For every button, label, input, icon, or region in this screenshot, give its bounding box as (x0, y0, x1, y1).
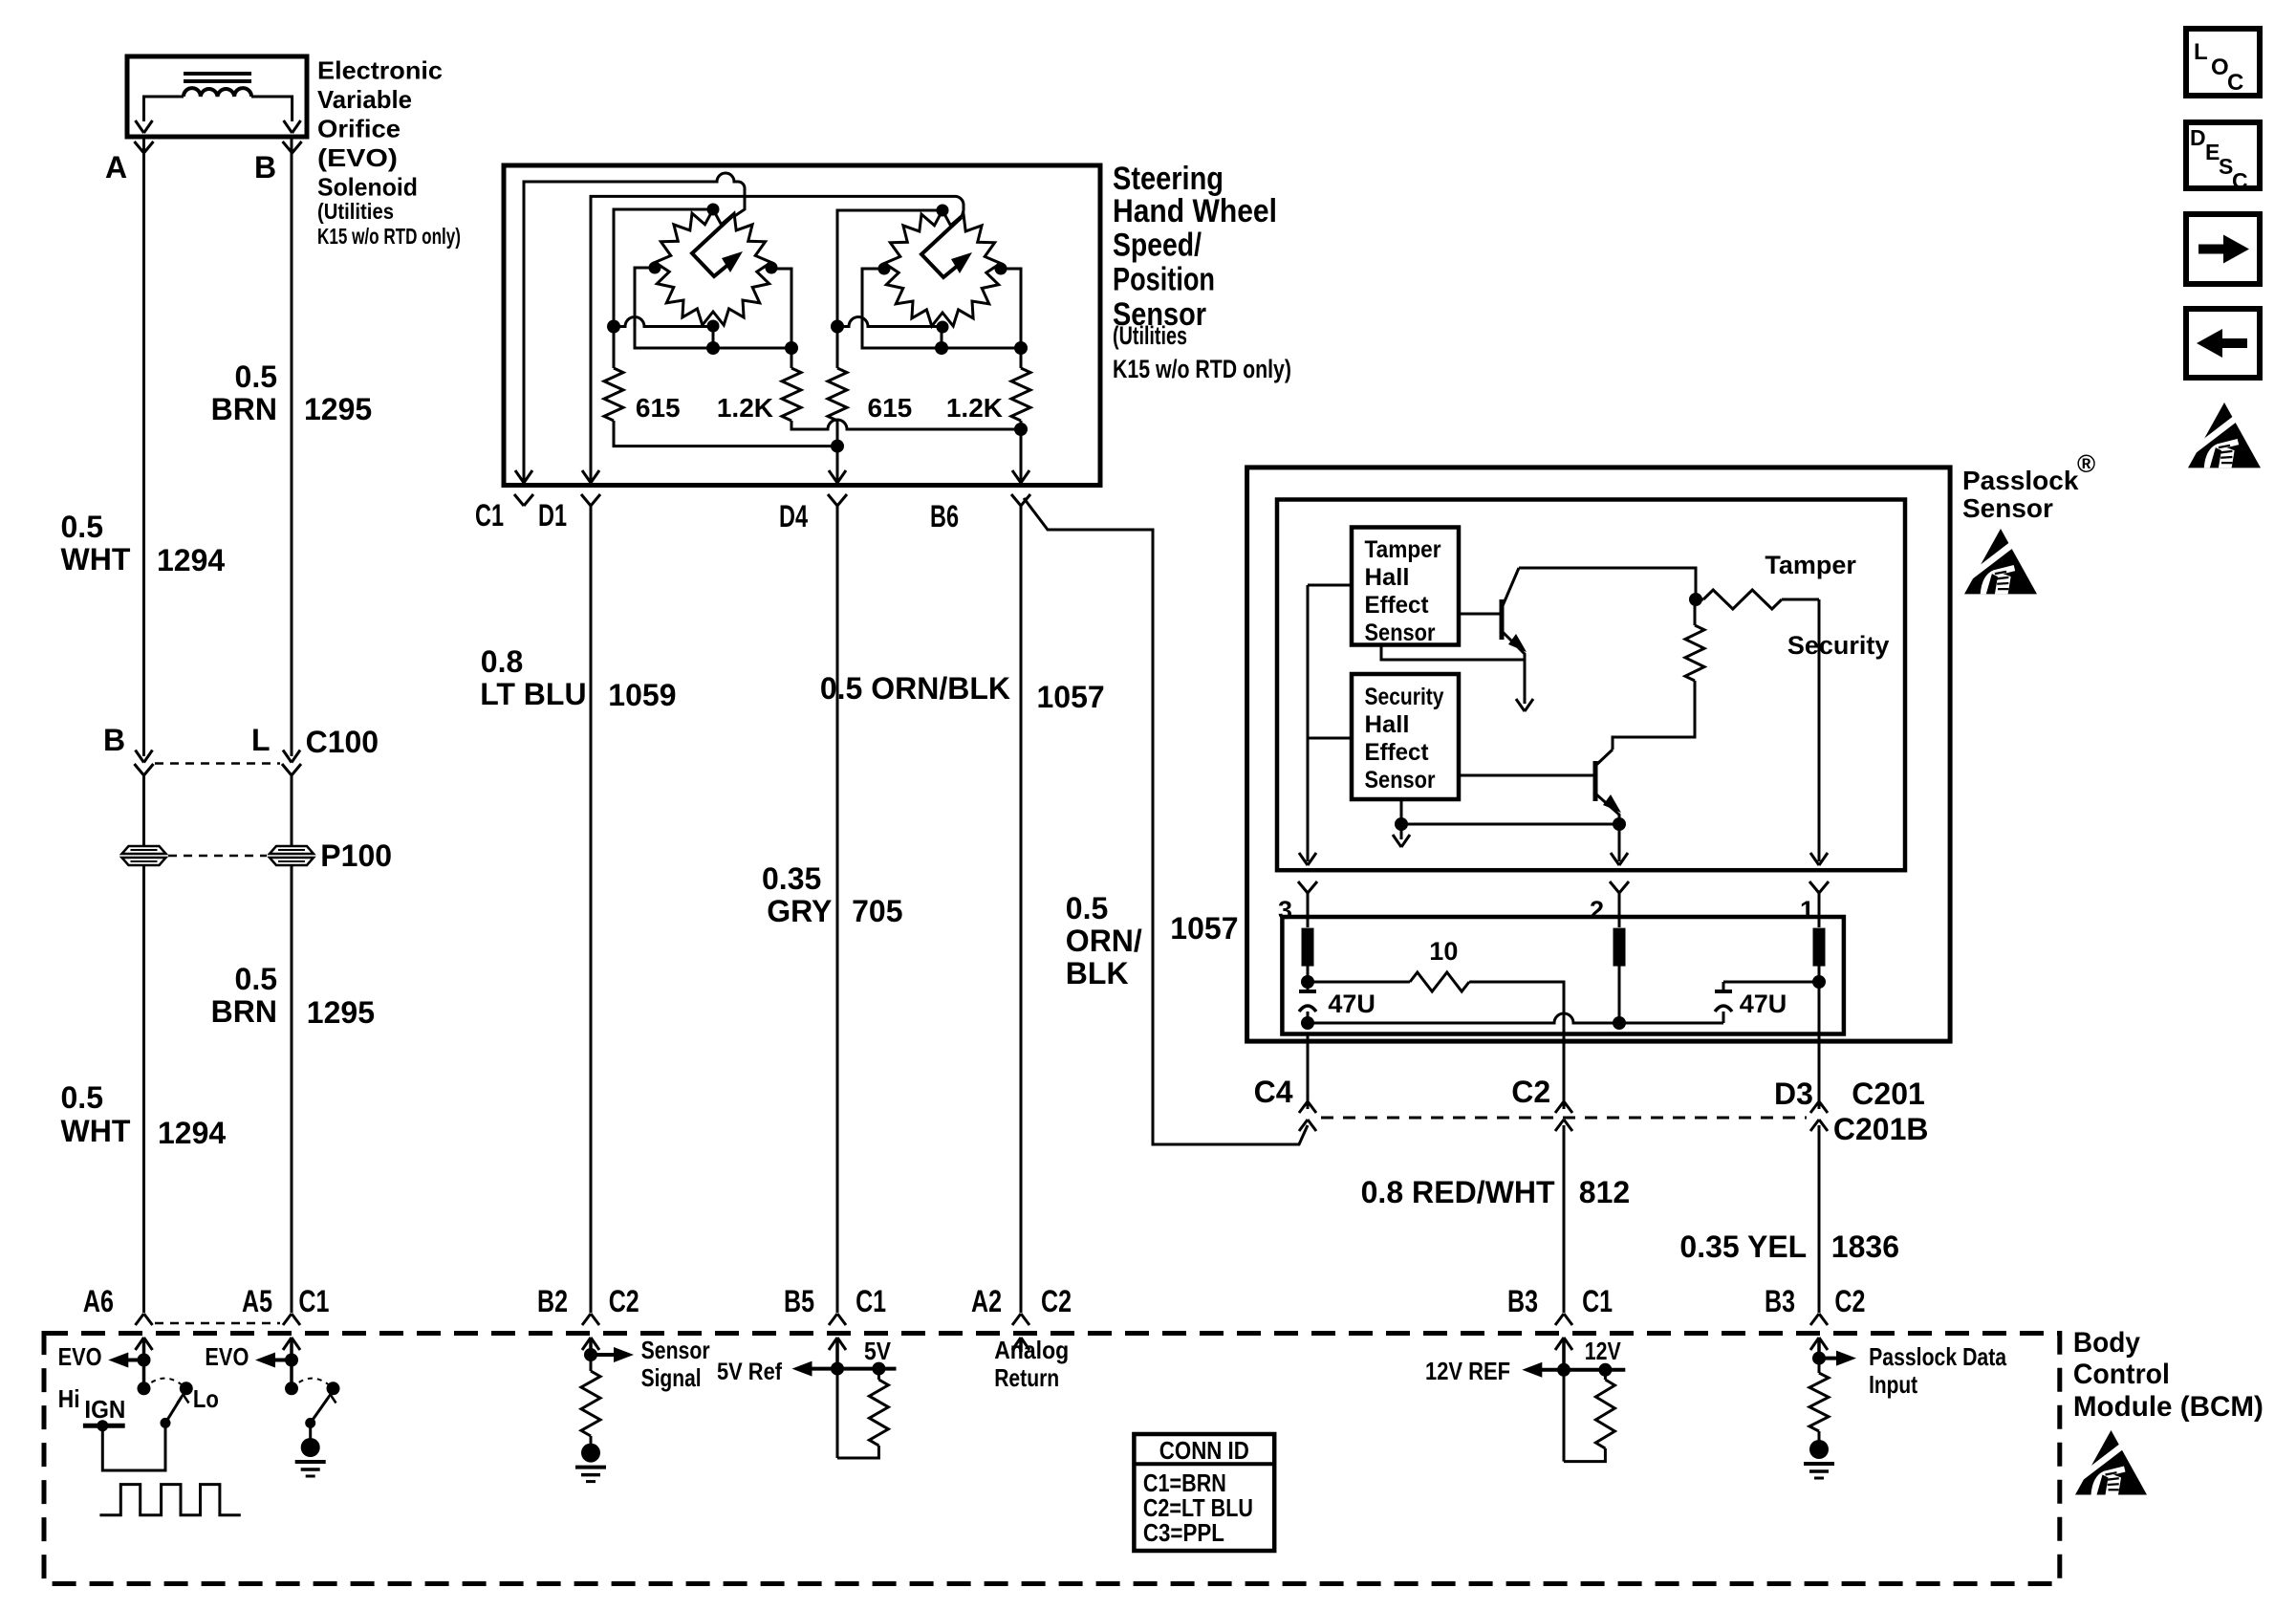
wire 1294 WHT pin A to C100 (142, 137, 145, 756)
svg-text:12V: 12V (1585, 1337, 1622, 1365)
svg-text:705: 705 (852, 894, 902, 928)
switch S1 dashed arc (144, 1379, 186, 1389)
BCM pin B3 chevron and labels (1765, 1284, 1865, 1325)
svg-text:K15 w/o RTD only): K15 w/o RTD only) (1113, 355, 1291, 383)
wire 5V resistor return (837, 1446, 878, 1458)
label circuit 1294 lower (158, 1116, 226, 1150)
svg-text:Speed/: Speed/ (1113, 228, 1202, 264)
EVO Hi arrow (108, 1353, 143, 1368)
svg-text:Effect: Effect (1365, 739, 1430, 766)
wire 615-1 bottom to D4 junction (614, 421, 837, 446)
svg-text:0.5: 0.5 (1066, 891, 1108, 925)
pin label 1 (1800, 896, 1814, 925)
network bar pin1 (1813, 928, 1826, 967)
wire security hall to pin3 bus (1308, 737, 1352, 740)
arrow into BCM B3-C1 (1555, 1338, 1572, 1370)
label Tamper Hall Effect Sensor (1365, 536, 1441, 646)
label C3=PPL (1143, 1518, 1224, 1547)
svg-text:615: 615 (636, 393, 681, 423)
junction node3 (1301, 975, 1314, 989)
resistor 1.2K second (1011, 348, 1030, 421)
svg-text:Signal: Signal (641, 1363, 702, 1392)
wire 1.2K-2 bottom to B6 junction (1020, 421, 1023, 429)
wire D4 node to pin D4 (836, 446, 839, 482)
svg-text:Variable: Variable (317, 85, 412, 114)
svg-text:C201: C201 (1852, 1077, 1925, 1111)
wire right cap to pin1 (1723, 981, 1819, 984)
svg-text:5V: 5V (864, 1337, 892, 1365)
resistor 5V pullup (869, 1369, 888, 1446)
wire tamper hall bottom to Q1 emitter (1381, 645, 1525, 661)
svg-text:5V Ref: 5V Ref (717, 1359, 783, 1385)
svg-text:Electronic: Electronic (317, 56, 443, 85)
resistor 615 first (604, 368, 623, 421)
icon LOC box (2186, 29, 2260, 96)
wire 1057 ORN/BLK B6 to BCM A2 (1020, 506, 1023, 1313)
label 5V Ref (717, 1359, 783, 1385)
svg-text:47U: 47U (1328, 990, 1375, 1018)
svg-text:C2: C2 (1041, 1284, 1072, 1318)
connector C100 arrow wire1 (136, 751, 153, 763)
label 0.8 LT BLU (480, 644, 586, 711)
svg-text:A6: A6 (83, 1284, 114, 1318)
label Analog Return (994, 1336, 1069, 1392)
label Sensor Signal (641, 1336, 710, 1392)
label 0.5 BRN upper (211, 359, 277, 426)
arrow internal ground (1393, 824, 1410, 847)
svg-text:C2: C2 (609, 1284, 639, 1318)
svg-text:1.2K: 1.2K (946, 393, 1003, 423)
connector C2 chevrons (1555, 1101, 1572, 1131)
svg-text:C1: C1 (298, 1284, 329, 1318)
label C1=BRN (1143, 1469, 1226, 1497)
resistor 12V pullup (1595, 1370, 1614, 1448)
wire 705 GRY D4 to BCM B5 (836, 506, 839, 1313)
label EVO Lo (193, 1342, 249, 1413)
svg-text:C: C (2227, 70, 2243, 96)
wire 12V resistor return (1564, 1448, 1605, 1462)
pin B chevron (283, 141, 302, 153)
svg-text:EVO: EVO (58, 1342, 102, 1371)
ESD symbol BCM (2075, 1430, 2147, 1495)
label 0.5 BRN lower (211, 962, 277, 1029)
pin C1 chevron (514, 494, 533, 506)
wire pot1 top to 615 resistor (614, 209, 713, 368)
junction pot2 loop right corner (1014, 341, 1028, 355)
label C2=LT BLU (1143, 1493, 1253, 1522)
pin label B6 (930, 499, 959, 533)
ESD symbol top right (2188, 402, 2261, 468)
svg-text:1295: 1295 (307, 995, 375, 1030)
svg-text:(Utilities: (Utilities (1113, 321, 1187, 350)
icon forward arrow (2199, 235, 2249, 264)
junction pin2 bottom (1613, 1016, 1626, 1030)
BCM dashed box (44, 1334, 2060, 1584)
icon DESC box (2186, 122, 2260, 188)
transistor Q2 emitter (1595, 794, 1621, 824)
wire C2 lead (1563, 1033, 1566, 1109)
svg-text:C1: C1 (475, 498, 504, 533)
svg-text:C2: C2 (1834, 1284, 1865, 1318)
svg-text:Orifice: Orifice (317, 115, 401, 143)
grommet P100 wire1 (122, 846, 166, 865)
wire 1295 BRN P100 to BCM A5 (291, 866, 293, 1313)
label circuit 1059 (608, 678, 676, 712)
wire IGN to S1 pivot (102, 1423, 165, 1470)
switch S2 contact (285, 1382, 298, 1395)
svg-text:CONN ID: CONN ID (1159, 1436, 1249, 1465)
grommet P100 wire2 (270, 846, 314, 865)
BCM pin A5 chevron and labels (242, 1284, 329, 1325)
inductor L1 core lines (184, 74, 251, 81)
svg-text:C4: C4 (1254, 1075, 1293, 1109)
icon forward arrow box (2186, 214, 2260, 284)
switch S1 contact (138, 1382, 151, 1395)
svg-text:0.35 YEL: 0.35 YEL (1679, 1229, 1807, 1264)
svg-text:WHT: WHT (61, 1114, 131, 1148)
svg-text:Passlock Data: Passlock Data (1869, 1342, 2006, 1371)
svg-text:A2: A2 (971, 1284, 1002, 1318)
label 0.35 YEL (1679, 1229, 1807, 1264)
arrow Q1 emitter down (1516, 699, 1533, 711)
BCM pin A2 chevron and labels (971, 1284, 1072, 1325)
wire pin1 bar through node (1818, 966, 1821, 1033)
ground sensor signal (575, 1444, 606, 1482)
svg-text:1057: 1057 (1037, 680, 1105, 714)
svg-text:B: B (254, 150, 276, 185)
svg-text:Steering: Steering (1113, 161, 1224, 197)
capacitor 47U left (1299, 991, 1316, 1023)
label circuit 1294 upper (157, 543, 225, 577)
resistor 10 (1410, 972, 1469, 991)
arrow into BCM A2 (1012, 1338, 1029, 1352)
svg-text:Security: Security (1365, 684, 1444, 710)
junction pot1 loop right corner (785, 341, 798, 355)
wire pin3 bus (1307, 585, 1310, 861)
svg-text:0.8 RED/WHT: 0.8 RED/WHT (1361, 1175, 1555, 1209)
junction B6 node (1014, 423, 1028, 436)
svg-text:Effect: Effect (1365, 592, 1430, 619)
pin label A (105, 150, 127, 185)
label 0.5 WHT upper (61, 510, 131, 577)
wire 1059 LT BLU D1 to BCM B2 (590, 506, 593, 1313)
wire 12V node down (1563, 1370, 1566, 1462)
pin label L at C100 (251, 723, 271, 757)
svg-text:C: C (2232, 168, 2248, 193)
label circuit 1057 lower (1170, 911, 1238, 946)
passlock data arrow (1819, 1351, 1856, 1366)
resistor 1.2K first (782, 348, 801, 421)
icon back arrow box (2186, 309, 2260, 378)
BCM pin B2 chevron and labels (537, 1284, 639, 1325)
svg-text:Hand Wheel: Hand Wheel (1113, 193, 1277, 229)
arrow pin2 into inner box edge (1611, 853, 1628, 865)
connector C100 dashed link (155, 762, 280, 765)
svg-text:Control: Control (2073, 1359, 2170, 1390)
label EVO Hi (58, 1342, 102, 1413)
svg-text:Tamper: Tamper (1765, 551, 1856, 579)
label circuit 1295 upper (304, 392, 372, 426)
potentiometer pot2 (878, 205, 1007, 334)
arrow into box bottom C1 (515, 470, 532, 483)
svg-text:Passlock: Passlock (1962, 466, 2079, 495)
junction 12V node (1557, 1363, 1570, 1377)
icon LOC letters (2194, 39, 2243, 96)
connector D3 chevrons (1810, 1101, 1828, 1131)
label 12V (1585, 1337, 1622, 1365)
pin D1 chevron (581, 494, 600, 506)
label 615 second (868, 393, 913, 423)
svg-text:(EVO): (EVO) (317, 143, 398, 172)
svg-text:Sensor: Sensor (641, 1336, 710, 1364)
wire J1 hop to pot1 bottom (614, 317, 713, 327)
wire 1836 YEL D3 to BCM (1818, 1125, 1821, 1313)
svg-text:A5: A5 (242, 1284, 272, 1318)
svg-text:615: 615 (868, 393, 913, 423)
svg-text:D3: D3 (1774, 1077, 1813, 1111)
wire pin3 to network (1307, 893, 1310, 927)
potentiometer pot1 (649, 204, 778, 333)
switch S2 dashed arc (292, 1379, 334, 1389)
svg-text:812: 812 (1579, 1175, 1630, 1209)
wire bar3 to node (1307, 966, 1310, 991)
svg-text:P100: P100 (320, 838, 392, 873)
network bar pin3 (1302, 928, 1314, 967)
junction pot2 bottom stub (935, 327, 948, 356)
svg-text:B: B (103, 723, 125, 757)
wire 1295 BRN C100 to P100 (291, 775, 293, 845)
inductor L1 coil (184, 88, 251, 97)
BCM pin B3 chevron and labels (1507, 1284, 1613, 1325)
IGN feed bar (83, 1424, 125, 1428)
pin A chevron (135, 141, 154, 153)
network bar pin2 (1614, 928, 1626, 967)
connector dashed link A6-A5 (155, 1322, 280, 1325)
wire 1294 WHT C100 to P100 (142, 775, 145, 845)
svg-text:1059: 1059 (608, 678, 676, 712)
wire pot2 top to 615 resistor (837, 210, 942, 368)
svg-text:K15 w/o RTD only): K15 w/o RTD only) (317, 224, 461, 249)
pin label B (254, 150, 276, 185)
label 0.35 GRY (762, 861, 832, 928)
svg-text:1295: 1295 (304, 392, 372, 426)
icon DESC letters (2190, 125, 2248, 193)
svg-text:0.8: 0.8 (481, 644, 523, 679)
svg-text:C201B: C201B (1833, 1112, 1929, 1146)
svg-text:D4: D4 (779, 499, 808, 533)
connector C100 arrow wire2 (283, 751, 300, 763)
wire pin1 to network (1818, 893, 1821, 927)
svg-text:1057: 1057 (1170, 911, 1238, 946)
junction J1 (607, 320, 620, 334)
svg-text:WHT: WHT (61, 542, 131, 577)
12V REF arrow (1522, 1362, 1625, 1378)
label circuit 812 (1579, 1175, 1630, 1209)
ESD symbol passlock (1964, 529, 2037, 594)
svg-text:Return: Return (994, 1363, 1059, 1392)
svg-text:Position: Position (1113, 262, 1215, 298)
icon back arrow (2197, 329, 2247, 358)
svg-text:Sensor: Sensor (1365, 620, 1436, 646)
svg-text:B2: B2 (537, 1284, 568, 1318)
svg-text:C1: C1 (1582, 1284, 1613, 1318)
wire pin2 bus (1618, 824, 1621, 861)
wire security hall to Q2 base (1459, 774, 1595, 777)
switch S2 pivot (305, 1418, 315, 1428)
pin label C1 (475, 498, 504, 533)
switch S2 throw contact (327, 1382, 340, 1395)
svg-text:Input: Input (1869, 1370, 1917, 1399)
arrow into pin A (136, 120, 153, 133)
resistor Security (1685, 599, 1704, 681)
junction 12V resistor tap (1598, 1363, 1612, 1377)
Passlock hybrid inner box (1277, 500, 1905, 871)
label circuit 1836 (1831, 1229, 1899, 1264)
svg-text:1: 1 (1800, 896, 1814, 925)
label Electronic Variable Orifice (EVO) Solenoid (317, 56, 461, 250)
svg-text:C1: C1 (856, 1284, 886, 1318)
svg-text:B6: B6 (930, 499, 959, 533)
svg-text:BLK: BLK (1066, 956, 1129, 990)
wire B6 node to pin B6 (1020, 429, 1023, 482)
label Security (1787, 631, 1890, 660)
junction IGN (97, 1420, 108, 1431)
wire 615-2 bottom to D4 junction (836, 421, 839, 446)
5V Ref arrow (792, 1361, 897, 1377)
wire C4 lead (1307, 1033, 1310, 1109)
junction J2 (831, 320, 844, 334)
svg-text:BRN: BRN (211, 392, 277, 426)
arrow into BCM A6 (136, 1338, 153, 1360)
arrow into pin B (284, 120, 301, 133)
svg-text:D: D (2190, 125, 2206, 150)
junction pin1 node (1812, 975, 1826, 989)
capacitor 47U right (1715, 982, 1732, 1023)
svg-text:C3=PPL: C3=PPL (1143, 1518, 1224, 1547)
pin 1 chevron (1809, 881, 1829, 893)
connector C100 chevron wire2 (282, 764, 301, 775)
svg-text:1836: 1836 (1831, 1229, 1899, 1264)
wire pot2 left-right loop (862, 269, 1021, 348)
svg-text:Analog: Analog (994, 1336, 1069, 1364)
svg-text:ORN/: ORN/ (1066, 924, 1142, 958)
transistor Q2 collector (1595, 750, 1613, 766)
svg-text:Tamper: Tamper (1365, 536, 1441, 563)
label C100 (306, 725, 379, 759)
label Passlock (R) Sensor (1962, 449, 2095, 523)
junction 5V node (831, 1362, 844, 1376)
svg-text:B3: B3 (1765, 1284, 1795, 1318)
svg-text:0.5: 0.5 (61, 1080, 103, 1115)
svg-text:LT BLU: LT BLU (480, 677, 586, 711)
svg-text:C100: C100 (306, 725, 379, 759)
BCM pin A6 chevron and labels (83, 1284, 153, 1325)
svg-text:Solenoid: Solenoid (317, 173, 418, 202)
svg-text:B3: B3 (1507, 1284, 1538, 1318)
steering sensor box (504, 165, 1100, 486)
label C201B (1833, 1112, 1929, 1146)
svg-text:47U: 47U (1740, 990, 1787, 1018)
svg-text:Hall: Hall (1365, 564, 1410, 591)
wire EVO coil to pin A (144, 97, 184, 121)
BCM pin B5 chevron and labels (784, 1284, 886, 1325)
wire 5V node down (836, 1369, 839, 1458)
switch S1 pivot (161, 1418, 171, 1428)
svg-text:Sensor: Sensor (1365, 767, 1436, 794)
wire pin1 bus (1818, 599, 1821, 861)
junction sensor signal node (584, 1348, 597, 1361)
arrow into box bottom D1 (582, 470, 599, 483)
arrow into BCM A5 (283, 1338, 300, 1360)
svg-text:®: ® (2077, 449, 2095, 478)
wire tamper hall to Q1 base (1459, 613, 1502, 616)
transistor Q1 base bar (1500, 599, 1505, 640)
wire Q2 emitter bus (1401, 823, 1619, 826)
pin label 2 (1590, 896, 1604, 925)
pin label D4 (779, 499, 808, 533)
svg-text:Hall: Hall (1365, 711, 1410, 738)
connector C100 chevron wire1 (135, 764, 154, 775)
pin D4 chevron (828, 494, 847, 506)
connector C201 dashed link (1321, 1117, 1807, 1120)
wire J2 hop to pot2 bottom (837, 317, 942, 327)
pin label C2 at C201 (1511, 1075, 1550, 1109)
junction 5V resistor tap (872, 1362, 885, 1376)
switch S2 blade (311, 1395, 336, 1424)
label 1.2K first (717, 393, 773, 423)
junction tamper resistor node (1689, 593, 1702, 606)
CONN ID box (1134, 1434, 1274, 1551)
label 1.2K second (946, 393, 1003, 423)
wire 1294 WHT P100 to BCM A6 (142, 866, 145, 1313)
arrow into BCM B5 (829, 1338, 846, 1369)
label Body Control Module (BCM) (2073, 1327, 2264, 1423)
label 12V REF (1425, 1357, 1510, 1385)
svg-text:BRN: BRN (211, 994, 277, 1029)
svg-text:10: 10 (1429, 937, 1458, 966)
resistor sensor signal pulldown (581, 1355, 600, 1444)
wire security resistor to Q2 collector (1613, 681, 1695, 750)
arrow into box bottom D4 (829, 470, 846, 483)
svg-text:Security: Security (1787, 631, 1890, 660)
svg-text:0.5: 0.5 (235, 962, 277, 996)
label Passlock Data Input (1869, 1342, 2006, 1399)
arrow into BCM B3-C2 (1810, 1338, 1828, 1359)
svg-text:0.5: 0.5 (61, 510, 103, 544)
ground passlock data (1804, 1440, 1834, 1478)
wire EVO coil to pin B (251, 97, 292, 121)
svg-text:C2: C2 (1511, 1075, 1550, 1109)
label 10 (1429, 937, 1458, 966)
label CONN ID (1159, 1436, 1249, 1465)
label Steering Hand Wheel Speed/Position Sensor (1113, 161, 1291, 383)
Passlock sensor outer box (1247, 468, 1951, 1041)
EVO solenoid box (127, 56, 307, 137)
pin label D1 (538, 498, 567, 533)
svg-text:0.5: 0.5 (235, 359, 277, 394)
Security Hall Effect Sensor box (1352, 674, 1459, 799)
wire 1295 BRN pin B to C100 (291, 137, 293, 756)
ground S2 (295, 1438, 326, 1476)
junction EVO Lo node (285, 1354, 298, 1367)
label P100 (320, 838, 392, 873)
junction EVO Hi node (138, 1354, 151, 1367)
svg-text:Module (BCM): Module (BCM) (2073, 1391, 2264, 1423)
junction emitter bus right (1613, 817, 1626, 831)
wire C1 to pot1 wiper (524, 173, 745, 483)
wire pot1 left-right loop (635, 268, 791, 348)
label 47U right (1740, 990, 1787, 1018)
